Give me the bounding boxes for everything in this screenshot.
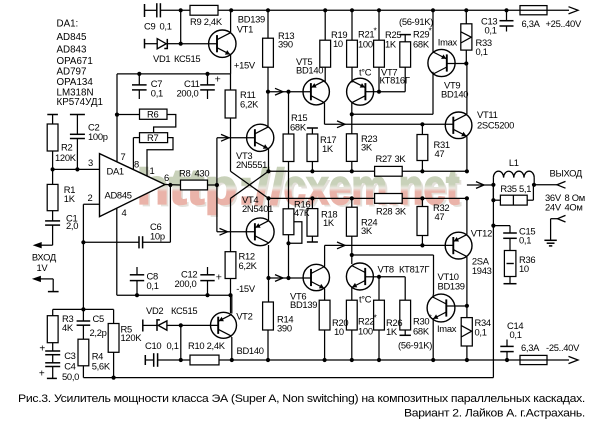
transistor VT11 2SC5200	[445, 112, 472, 139]
resistor R14	[263, 302, 274, 330]
svg-text:-25..40V: -25..40V	[546, 342, 580, 353]
transistor VT6 BD139	[303, 264, 329, 290]
VT11 emitter wire	[466, 136, 468, 171]
svg-text:Imax: Imax	[437, 323, 457, 334]
svg-text:120K: 120K	[55, 152, 77, 163]
transistor VT4 2N5401	[246, 218, 274, 246]
svg-text:Рис.3. Усилитель мощности клас: Рис.3. Усилитель мощности класса ЭА (Sup…	[18, 393, 585, 405]
VT11 base line	[325, 123, 454, 125]
op-amp DA1 AD845	[100, 154, 166, 217]
svg-text:6,2K: 6,2K	[240, 99, 259, 110]
op-amp output to R8	[165, 184, 181, 187]
VT11 collector wire	[466, 64, 468, 115]
transistor VT3 2N5551	[247, 124, 274, 151]
VT4 base wire	[217, 231, 255, 233]
VT12 emitter wire	[466, 198, 468, 234]
svg-text:ВЫХОД: ВЫХОД	[550, 167, 583, 178]
diode VD1 KC515 zener	[144, 39, 146, 49]
VT3/VT4 base column	[216, 138, 218, 232]
VT2 emitter wire to -15V rail	[231, 295, 233, 313]
svg-text:BD140: BD140	[296, 65, 323, 76]
transistor VT8 KT817G	[346, 263, 373, 290]
svg-text:6: 6	[164, 172, 169, 183]
VT4 collector wire to R14	[268, 245, 270, 302]
capacitor C6 10p compensation	[83, 241, 139, 243]
svg-text:DA1:: DA1:	[57, 19, 79, 30]
resistor R9	[190, 5, 218, 15]
svg-text:10: 10	[519, 263, 529, 274]
svg-text:R27: R27	[376, 153, 392, 164]
svg-text:+: +	[216, 272, 222, 284]
feedback divider node	[82, 242, 84, 309]
svg-text:VT12: VT12	[471, 228, 492, 239]
svg-text:+: +	[215, 74, 221, 86]
svg-text:390: 390	[277, 323, 292, 334]
capacitor C14	[506, 340, 508, 347]
resistor R24 3K	[351, 198, 353, 207]
transistor VT12 2SA1943	[445, 232, 472, 259]
svg-text:-15V: -15V	[236, 283, 256, 294]
wire VT9 collector to R21/R23 column	[352, 113, 433, 115]
resistor R32	[421, 198, 423, 206]
fuse 6,3A bottom	[520, 355, 547, 364]
svg-text:5,6K: 5,6K	[92, 361, 111, 372]
svg-text:1K: 1K	[322, 143, 334, 154]
svg-text:R2: R2	[61, 142, 72, 153]
svg-text:50,0: 50,0	[62, 371, 79, 382]
svg-text:R28: R28	[376, 205, 392, 216]
svg-text:AD845: AD845	[57, 32, 88, 43]
output wire to terminal	[534, 184, 557, 186]
resistor R19	[324, 10, 326, 40]
svg-text:7: 7	[121, 151, 126, 162]
svg-text:КС515: КС515	[174, 53, 200, 64]
VD2 junction to VT2 base	[179, 323, 183, 327]
svg-text:+25..40V: +25..40V	[546, 18, 582, 29]
resistor R8 430	[181, 180, 208, 190]
svg-text:R9 2,4K: R9 2,4K	[190, 16, 223, 27]
VT12 base line	[325, 244, 454, 246]
transistor VT9 BD140 (Imax sensor)	[428, 49, 455, 76]
svg-text:68K: 68K	[290, 122, 307, 133]
VT5 collector wire to VT11 base line	[324, 103, 326, 125]
svg-text:КТ817Г: КТ817Г	[399, 264, 429, 275]
svg-text:1: 1	[150, 165, 155, 176]
VT1 emitter wire to +15V node	[230, 55, 232, 74]
wire C9/R9 junction to VT1 base	[180, 10, 182, 43]
resistor R35 5,1	[492, 185, 494, 200]
svg-text:6,3A: 6,3A	[521, 342, 540, 353]
svg-text:VT8: VT8	[378, 264, 394, 275]
svg-text:1K: 1K	[385, 39, 397, 50]
capacitor C12	[207, 267, 209, 275]
svg-text:0,1: 0,1	[485, 24, 497, 35]
resistor R11	[230, 74, 232, 90]
resistor R34 0,1 current sense	[466, 306, 468, 318]
VT1 collector wire to top rail	[230, 10, 232, 32]
svg-text:0,1: 0,1	[147, 280, 159, 291]
pin 2 wire	[83, 203, 99, 205]
svg-text:8: 8	[134, 159, 139, 170]
svg-text:L1: L1	[509, 157, 519, 168]
svg-text:3K: 3K	[395, 205, 407, 216]
resistor R12	[225, 252, 236, 279]
svg-text:3K: 3K	[361, 142, 373, 153]
capacitor C5 2,2p	[82, 309, 84, 321]
cross-coupling X wires	[231, 171, 269, 198]
pin 4 supply wire	[116, 208, 118, 295]
svg-text:Imax: Imax	[438, 36, 458, 47]
resistor R13	[267, 10, 269, 38]
diode VD2 KC515 zener	[142, 320, 144, 332]
svg-text:2,2p: 2,2p	[90, 327, 107, 338]
resistor R28 3K	[375, 194, 403, 204]
svg-text:R6: R6	[147, 109, 158, 120]
Zobel R36 10	[504, 251, 516, 277]
non-inverting input node	[53, 168, 100, 170]
svg-text:КС515: КС515	[171, 305, 197, 316]
resistor R2 120K with open top	[47, 114, 58, 116]
capacitor C10	[144, 355, 146, 365]
capacitor C11	[207, 74, 209, 85]
svg-text:VD2: VD2	[146, 305, 163, 316]
resistor R17 1K with open top	[307, 127, 318, 129]
svg-text:47К: 47К	[294, 207, 310, 218]
resistor R27 3K	[375, 166, 403, 176]
svg-text:VD1: VD1	[153, 53, 170, 64]
transistor VT5 BD140	[268, 91, 311, 93]
DA1 device list	[57, 19, 103, 108]
svg-text:2N5401: 2N5401	[242, 203, 273, 214]
svg-text:R35 5,1: R35 5,1	[500, 183, 531, 194]
top +25..40V rail	[161, 9, 569, 11]
resistor R22 100	[351, 288, 353, 301]
electrolytic C3/C4 50,0	[45, 350, 60, 352]
resistor R10 2,4K	[190, 355, 219, 365]
svg-text:6,2K: 6,2K	[239, 260, 258, 271]
svg-text:6,3A: 6,3A	[522, 18, 541, 29]
VT7/R25/R29 base node wires	[377, 90, 381, 94]
resistor R7	[140, 133, 168, 143]
svg-text:100: 100	[358, 39, 373, 50]
resistor R6	[140, 109, 168, 119]
feedback bottom wire	[83, 377, 493, 379]
resistor R15 68K	[288, 92, 290, 134]
svg-text:VT11: VT11	[477, 109, 498, 120]
resistor R18 1K with open bottom	[311, 198, 313, 208]
output ground terminal	[551, 218, 558, 220]
VT3 emitter wire	[268, 149, 270, 172]
svg-text:КТ816Г: КТ816Г	[380, 75, 410, 86]
svg-text:C10: C10	[145, 340, 161, 351]
svg-text:C4: C4	[64, 361, 75, 372]
VT7 collector wire down	[351, 103, 353, 134]
svg-text:OPA671: OPA671	[57, 56, 93, 67]
svg-text:КР574УД1: КР574УД1	[57, 97, 103, 108]
svg-text:(56-91K): (56-91K)	[398, 340, 432, 351]
capacitor C9	[144, 4, 146, 17]
svg-text:+: +	[39, 344, 45, 355]
svg-text:0,1: 0,1	[151, 88, 163, 99]
capacitor C1 2,0	[52, 211, 54, 221]
svg-text:C9: C9	[144, 21, 155, 32]
VT3 base wire	[217, 137, 255, 139]
svg-text:AD843: AD843	[57, 45, 88, 56]
svg-text:390: 390	[278, 39, 293, 50]
output node wire and arrow	[467, 184, 494, 186]
trimmer R16 47K	[283, 209, 294, 235]
capacitor C2 100p with open top	[70, 114, 85, 116]
svg-text:BD139: BD139	[438, 281, 465, 292]
svg-text:+15V: +15V	[234, 60, 256, 71]
svg-text:1K: 1K	[323, 217, 335, 228]
svg-text:4: 4	[122, 207, 127, 218]
wire VT10 collector line	[352, 254, 434, 256]
svg-text:2: 2	[88, 192, 93, 203]
transistor VT1 BD139	[209, 30, 236, 57]
resistor R29 with open top terminal	[400, 34, 411, 36]
svg-text:430: 430	[195, 168, 210, 179]
transistor VT10 BD139 (Imax sensor)	[427, 294, 455, 322]
resistor R31	[421, 124, 423, 134]
svg-text:t°C: t°C	[359, 293, 372, 304]
-15V wire from R12/VT2	[230, 279, 232, 314]
svg-text:10: 10	[333, 38, 343, 49]
-15V rail	[117, 294, 231, 296]
svg-text:1K: 1K	[64, 193, 76, 204]
bottom -25..40V rail	[219, 359, 569, 361]
resistor R21	[351, 10, 353, 40]
svg-text:(56-91K): (56-91K)	[399, 16, 433, 27]
svg-text:0,1: 0,1	[476, 46, 488, 57]
svg-text:R10 2,4K: R10 2,4K	[188, 340, 226, 351]
svg-text:BD140: BD140	[441, 88, 468, 99]
svg-text:4Ом: 4Ом	[565, 201, 583, 212]
resistor R23 3K	[346, 134, 357, 162]
resistor R26 1K	[378, 277, 380, 300]
svg-text:24V: 24V	[545, 201, 562, 212]
svg-text:200,0: 200,0	[177, 88, 199, 99]
svg-text:2N5551: 2N5551	[236, 159, 267, 170]
svg-text:3K: 3K	[395, 153, 407, 164]
resistor R30 68K with open bottom	[404, 277, 406, 300]
svg-text:AD845: AD845	[105, 190, 132, 201]
svg-text:3K: 3K	[361, 225, 373, 236]
VT6 collector wire to VT12 base line	[324, 245, 326, 266]
fuse 6,3A top	[520, 6, 547, 15]
svg-text:Вариант 2. Лайков А. г.Астраха: Вариант 2. Лайков А. г.Астрахань.	[404, 407, 585, 419]
VT4 emitter wire	[268, 198, 270, 220]
svg-text:VT1: VT1	[237, 24, 253, 35]
pin 7 supply wire	[116, 74, 118, 162]
svg-text:100: 100	[358, 326, 373, 337]
svg-text:C5: C5	[93, 313, 104, 324]
+15V rail	[117, 73, 231, 75]
capacitor C7	[138, 74, 140, 85]
svg-text:R7: R7	[147, 132, 158, 143]
svg-text:4K: 4K	[62, 322, 74, 333]
VT10 emitter wire to bottom rail	[432, 319, 434, 360]
svg-text:C3: C3	[64, 350, 75, 361]
svg-text:1V: 1V	[37, 262, 49, 273]
svg-text:0,1: 0,1	[167, 340, 179, 351]
resistor R25	[378, 10, 380, 40]
resistor R33 0,1 current sense	[465, 10, 467, 23]
svg-text:10: 10	[334, 326, 344, 337]
svg-text:0,1: 0,1	[519, 235, 531, 246]
input terminal (common)	[40, 278, 53, 280]
svg-text:100p: 100p	[88, 131, 108, 142]
resistor R5 120K	[113, 309, 115, 323]
resistor R3 4K	[52, 309, 54, 315]
Zobel C15	[493, 225, 510, 227]
transistor VT7 KT816G	[347, 78, 374, 105]
svg-text:47: 47	[435, 211, 445, 222]
svg-text:68K: 68K	[413, 326, 430, 337]
svg-text:3: 3	[88, 157, 93, 168]
svg-text:0,1: 0,1	[160, 21, 172, 32]
svg-text:t°C: t°C	[359, 66, 372, 77]
svg-text:R8: R8	[179, 168, 190, 179]
resistor R20 10	[324, 289, 326, 301]
input terminal (signal)	[40, 244, 53, 246]
svg-text:DA1: DA1	[107, 166, 124, 177]
svg-text:47: 47	[435, 148, 445, 159]
svg-text:+: +	[39, 368, 45, 379]
capacitor C8	[136, 267, 138, 275]
transistor VT2 BD140	[211, 312, 237, 338]
capacitor C13	[506, 10, 508, 20]
svg-text:10p: 10p	[150, 231, 165, 242]
svg-text:1K: 1K	[386, 326, 398, 337]
svg-text:2,0: 2,0	[66, 220, 78, 231]
resistor R4 5,6K	[78, 339, 89, 366]
VT12 collector wire	[466, 257, 468, 306]
svg-text:BD139: BD139	[290, 299, 317, 310]
VT6 base line from VT4 collector	[269, 277, 312, 279]
VT2 collector wire to bottom rail	[231, 337, 233, 360]
svg-text:2SC5200: 2SC5200	[477, 120, 514, 131]
svg-text:120K: 120K	[121, 332, 143, 343]
feedback column from output	[492, 185, 494, 378]
inductor L1	[492, 178, 494, 185]
lower signal rail	[269, 197, 467, 199]
svg-text:0,1: 0,1	[510, 329, 522, 340]
svg-text:BD140: BD140	[237, 345, 264, 356]
svg-text:200,0: 200,0	[175, 278, 197, 289]
resistor R1 1K	[52, 169, 54, 184]
svg-text:68K: 68K	[413, 39, 430, 50]
svg-text:0,1: 0,1	[475, 327, 487, 338]
svg-text:VT2: VT2	[236, 311, 252, 322]
VT8 base bias node	[377, 275, 381, 279]
upper signal rail	[269, 170, 467, 172]
svg-text:1943: 1943	[472, 265, 492, 276]
